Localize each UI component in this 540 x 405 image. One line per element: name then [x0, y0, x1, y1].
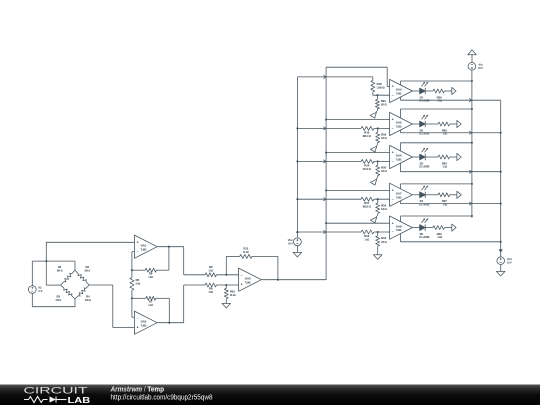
svg-text:100 Ω: 100 Ω	[381, 103, 387, 107]
wire OA1 output	[157, 246, 183, 248]
svg-text:+: +	[137, 325, 139, 329]
svg-text:LTL-307EE: LTL-307EE	[419, 202, 429, 206]
output port stage 3	[457, 153, 461, 160]
op-amp OA6	[390, 145, 413, 168]
wire OA3 output bus vertical	[325, 67, 327, 280]
resistor R18 stage1 divider top	[372, 77, 374, 81]
svg-text:LTL-307EE: LTL-307EE	[419, 235, 429, 239]
wire -Vcc rail vertical	[471, 70, 473, 218]
ground below Vcc source	[293, 252, 302, 257]
svg-text:200 Ω: 200 Ω	[85, 298, 91, 302]
svg-text:R20: R20	[381, 166, 387, 170]
resistor R27	[425, 194, 438, 196]
svg-text:+: +	[241, 282, 243, 286]
wire OA1 - input to feedback node	[132, 251, 135, 253]
node stage 4 tap	[377, 198, 379, 200]
node OA2 output junction	[168, 322, 170, 324]
svg-text:R11: R11	[243, 247, 248, 251]
svg-text:TL081: TL081	[396, 125, 402, 129]
svg-text:R10: R10	[230, 289, 236, 293]
svg-text:R14: R14	[364, 163, 370, 167]
svg-text:100 Ω: 100 Ω	[84, 269, 90, 273]
svg-text:R12: R12	[381, 236, 387, 240]
wire OA5 V- rail	[400, 130, 402, 133]
resistor R15 stage 2	[361, 126, 374, 130]
wire + input stage 5 from OA3 bus	[325, 222, 327, 224]
svg-text:LAB: LAB	[68, 395, 91, 405]
wire OA7 V- rail	[400, 201, 402, 204]
svg-text:−: −	[241, 273, 243, 277]
resistor R14 stage 3	[361, 159, 374, 163]
node R8 line junction	[225, 274, 227, 276]
wire OA2 output	[157, 322, 183, 324]
svg-text:R2: R2	[86, 265, 90, 269]
resistor R13 stage 5	[361, 230, 374, 234]
svg-text:TL082: TL082	[245, 280, 251, 284]
wire OA7 V+ rail	[400, 184, 402, 189]
node stage 5 tap	[377, 231, 379, 233]
wire OA2 - input	[132, 316, 135, 318]
svg-text:2 kΩ: 2 kΩ	[136, 282, 141, 286]
LED D1	[413, 90, 420, 92]
svg-text:+: +	[392, 118, 394, 122]
rotated ground below R20	[376, 177, 377, 179]
resistor R22	[425, 227, 433, 229]
ground below R10	[222, 303, 231, 308]
svg-text:R3: R3	[57, 294, 61, 298]
svg-text:12 kΩ: 12 kΩ	[243, 250, 249, 254]
svg-text:170 Ω: 170 Ω	[55, 298, 61, 302]
wire OA8 V+ rail	[400, 216, 402, 222]
svg-text:1 kΩ: 1 kΩ	[148, 303, 153, 307]
svg-text:274.9 Ω: 274.9 Ω	[363, 167, 372, 171]
svg-text:1.59 kΩ: 1.59 kΩ	[377, 86, 386, 90]
svg-text:R4: R4	[86, 294, 90, 298]
wire - input stage 2 from Vcc bus	[296, 127, 298, 129]
resistor R20 stage 3	[377, 161, 379, 165]
svg-text:R8: R8	[209, 265, 213, 269]
resistor R17 stage 4	[361, 197, 374, 201]
wire Vcc reference bus vertical	[296, 77, 298, 232]
wire R6 up to OA1 output	[168, 247, 170, 271]
resistor R4 bridge bottom-right arm	[75, 285, 89, 299]
resistor R3 bridge bottom-left arm	[61, 285, 75, 299]
terminal arrow into bottom source	[499, 250, 502, 253]
output port stage 2	[457, 120, 461, 127]
resistor R8	[184, 274, 206, 276]
svg-text:923.6 Ω: 923.6 Ω	[363, 205, 372, 209]
resistor R5	[131, 270, 133, 277]
wire OA3 output	[262, 279, 327, 281]
voltage source Vcc 10V	[294, 238, 302, 246]
svg-text:+: +	[392, 151, 394, 155]
wire junction up to OA1 + input	[45, 242, 47, 261]
resistor R7	[132, 297, 146, 299]
wire OA3 bus top to stage1 + loop	[326, 66, 387, 68]
LED D4 emission arrows	[422, 187, 425, 190]
output port stage 1	[452, 87, 456, 94]
wire Vcc bus top feed to R18	[297, 76, 372, 78]
voltage source -Vcc 15V	[468, 63, 476, 71]
svg-text:LTL-307EE: LTL-307EE	[419, 132, 429, 136]
wire OA6 V- rail	[400, 163, 402, 172]
svg-text:1 kΩ: 1 kΩ	[209, 290, 214, 294]
wire Vcc bottom to ground	[296, 246, 298, 253]
op-amp OA8	[390, 216, 413, 239]
svg-text:1 kΩ: 1 kΩ	[443, 132, 448, 136]
LED D5 emission arrows	[422, 220, 425, 223]
wire OA8 V- rail	[400, 234, 402, 242]
svg-text:R17: R17	[364, 201, 370, 205]
svg-text:R1: R1	[58, 265, 62, 269]
resistor R19 stage 2	[377, 128, 379, 132]
CircuitLab logo resistor-diode glyph	[24, 397, 48, 403]
LED D4	[413, 194, 420, 196]
op-amp OA5	[390, 112, 413, 135]
svg-text:TL081: TL081	[396, 158, 402, 162]
LED D2 emission arrows	[422, 116, 425, 119]
ground below bottom right source	[496, 271, 505, 276]
svg-text:R16: R16	[381, 203, 387, 207]
wire Vcc top	[296, 232, 298, 238]
svg-text:15 V: 15 V	[478, 66, 483, 70]
svg-text:100 Ω: 100 Ω	[381, 136, 387, 140]
svg-text:1 kΩ: 1 kΩ	[365, 237, 370, 241]
node feedback junction OA2	[131, 297, 133, 299]
wire + input stage 3 from OA3 bus	[325, 152, 327, 154]
svg-text:R19: R19	[381, 133, 387, 137]
svg-text:15 V: 15 V	[507, 261, 512, 265]
svg-text:LTL-307EE: LTL-307EE	[419, 165, 429, 169]
resistor R1 bridge top-left arm	[61, 270, 75, 285]
op-amp OA3	[239, 268, 262, 291]
resistor R21	[376, 95, 378, 99]
svg-text:+: +	[137, 240, 139, 244]
resistor R25	[425, 123, 438, 125]
svg-text:+: +	[392, 85, 394, 89]
svg-text:12 kΩ: 12 kΩ	[230, 293, 236, 297]
svg-text:1 kΩ: 1 kΩ	[443, 202, 448, 206]
wire + input stage 4 from OA3 bus	[325, 189, 327, 191]
wire OA6 V+ rail	[400, 143, 402, 151]
svg-text:TL081: TL081	[396, 195, 402, 199]
svg-text:CIRCUIT: CIRCUIT	[24, 386, 89, 396]
svg-text:R15: R15	[364, 130, 370, 134]
node R11 joins OA3 output	[277, 279, 279, 281]
svg-text:1 kΩ: 1 kΩ	[209, 268, 214, 272]
svg-text:http://circuitlab.com/c9bqup2r: http://circuitlab.com/c9bqup2r55qw8	[111, 395, 213, 402]
wire bottom source to ground	[500, 265, 502, 272]
svg-text:TL081: TL081	[396, 92, 402, 96]
svg-text:TL082: TL082	[141, 247, 147, 251]
svg-text:1 kΩ: 1 kΩ	[148, 275, 153, 279]
LED D2	[413, 123, 420, 125]
output port stage 5	[452, 224, 456, 231]
wire - input stage 4 from Vcc bus	[296, 198, 298, 200]
wire R7 down to OA2 output	[168, 298, 170, 322]
rotated ground below R19	[376, 144, 377, 146]
wire V1 top to bridge top	[31, 261, 33, 286]
voltage source Vcc 15V bottom right	[497, 257, 505, 265]
svg-text:385.4 Ω: 385.4 Ω	[363, 134, 372, 138]
svg-text:1 V: 1 V	[38, 289, 42, 293]
output port stage 4	[457, 191, 461, 198]
resistor R24	[425, 156, 438, 158]
resistor R2 bridge top-right arm	[75, 270, 89, 285]
LED D1 emission arrows	[422, 83, 425, 86]
wire OA5 V+ rail	[400, 109, 402, 118]
svg-text:TL081: TL081	[396, 228, 402, 232]
svg-text:Armstrwm / Temp: Armstrwm / Temp	[110, 386, 164, 393]
svg-text:−: −	[392, 127, 394, 131]
node Vcc junction	[296, 231, 298, 233]
resistor R10	[225, 285, 227, 288]
svg-text:−: −	[137, 249, 139, 253]
svg-text:TL082: TL082	[141, 323, 147, 327]
svg-text:R18: R18	[377, 82, 383, 86]
ground below R12	[377, 248, 379, 255]
svg-text:100 Ω: 100 Ω	[381, 240, 387, 244]
node feedback junction OA1	[131, 269, 133, 271]
op-amp OA2	[134, 311, 157, 334]
svg-text:LTL-307EE: LTL-307EE	[419, 99, 429, 103]
resistor R16 stage 4	[377, 199, 379, 203]
LED D5	[413, 227, 420, 229]
resistor R9	[184, 284, 206, 286]
svg-text:R6: R6	[149, 271, 153, 275]
svg-text:R13: R13	[364, 234, 370, 238]
wire junction down to bridge left node	[45, 261, 47, 285]
svg-text:−: −	[392, 197, 394, 201]
resistor R26	[425, 90, 433, 92]
footer bar background	[0, 385, 540, 405]
svg-text:−: −	[392, 230, 394, 234]
node OA1 output junction	[168, 246, 170, 248]
supply flag arrow above -Vcc	[468, 50, 477, 55]
svg-text:R21: R21	[381, 99, 387, 103]
svg-text:100 Ω: 100 Ω	[381, 169, 387, 173]
node junction at 46.3,261.1	[45, 260, 47, 262]
svg-text:10 V: 10 V	[288, 242, 293, 246]
svg-text:−: −	[137, 316, 139, 320]
wire OA4 V+ rail	[400, 81, 402, 85]
op-amp OA7	[390, 183, 413, 206]
svg-text:R9: R9	[209, 287, 213, 291]
svg-text:+: +	[392, 189, 394, 193]
wire bridge right node to OA2 + input	[89, 284, 113, 286]
wire + input stage 2 from OA3 bus	[325, 119, 327, 121]
resistor R12 stage 5	[377, 232, 379, 236]
svg-text:R5: R5	[136, 278, 140, 282]
wire - input stage 3 from Vcc bus	[296, 160, 298, 162]
svg-text:1 kΩ: 1 kΩ	[438, 99, 443, 103]
svg-text:1 kΩ: 1 kΩ	[443, 165, 448, 169]
svg-text:1 kΩ: 1 kΩ	[438, 235, 443, 239]
rotated ground below R16	[376, 215, 377, 217]
voltage source V1	[28, 286, 36, 294]
svg-text:100 Ω: 100 Ω	[381, 207, 387, 211]
resistor R11 feedback	[225, 256, 227, 274]
wire +Vcc rail vertical	[500, 101, 502, 257]
crossing Vcc feed over OA3 bus	[323, 75, 326, 78]
op-amp OA1	[134, 235, 157, 258]
wire V1 bottom to bridge bottom	[31, 293, 33, 306]
svg-text:+: +	[392, 221, 394, 225]
LED D3	[413, 156, 420, 158]
svg-text:200 Ω: 200 Ω	[57, 269, 63, 273]
LED D3 emission arrows	[422, 149, 425, 152]
node stage 3 tap	[377, 160, 379, 162]
rotated ground below R21	[376, 110, 377, 112]
svg-text:−: −	[392, 94, 394, 98]
wire - input stage 5 from Vcc bus	[296, 231, 298, 233]
wire OA4 V- rail	[400, 97, 402, 100]
node R9 line junction	[225, 284, 227, 286]
node stage1 tap	[376, 94, 378, 96]
op-amp OA4	[390, 79, 413, 102]
node stage 2 tap	[377, 127, 379, 129]
wire stage1 tap to OA4 - input	[373, 94, 390, 96]
svg-text:−: −	[392, 160, 394, 164]
resistor R6	[132, 269, 145, 271]
